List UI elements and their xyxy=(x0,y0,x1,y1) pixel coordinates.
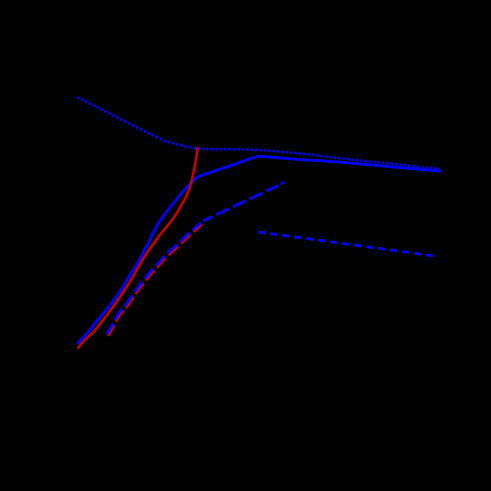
blue solid curve (rises from lower left, bends at ~(193,179), nearly flat to right) xyxy=(77,156,441,344)
blue short-dashed line (lower right, gently descending) xyxy=(258,232,437,256)
red solid curve (parallel below blue, then steep up to meet dotted at ~(197,147)) xyxy=(78,147,198,349)
red dashed curve (tucked just below blue long-dash, ends at bend) xyxy=(108,224,202,336)
blue long-dashed curve, rising section (bend at ~(203,221)) xyxy=(107,223,201,334)
blue long-dash terminal blob xyxy=(281,182,284,184)
blue dotted curve (upper, descending left-to-right) xyxy=(77,97,440,169)
blue long-dashed curve, shallow section after bend xyxy=(203,186,278,221)
